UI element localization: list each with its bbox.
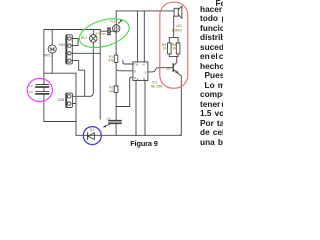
svg-text:4: 4	[143, 63, 145, 67]
svg-text:8: 8	[136, 63, 138, 67]
svg-text:8 Ohm: 8 Ohm	[172, 28, 182, 32]
svg-text:SOl-lam: SOl-lam	[95, 31, 106, 35]
svg-text:CN2: CN2	[58, 98, 65, 102]
svg-text:D1: D1	[90, 128, 94, 132]
svg-text:CN1: CN1	[59, 43, 66, 47]
svg-text:C1: C1	[106, 117, 110, 121]
svg-text:1K: 1K	[172, 47, 177, 51]
svg-text:M: M	[50, 47, 56, 53]
svg-text:1K: 1K	[163, 47, 168, 51]
svg-text:PL1: PL1	[110, 19, 116, 23]
svg-text:Q1: Q1	[166, 66, 171, 70]
svg-text:5: 5	[143, 77, 145, 81]
svg-text:RL1: RL1	[81, 36, 87, 40]
svg-text:47k: 47k	[109, 58, 115, 62]
svg-text:NE-555: NE-555	[151, 84, 163, 88]
svg-text:MT1: MT1	[44, 54, 51, 58]
svg-text:3: 3	[145, 71, 147, 75]
svg-text:1: 1	[137, 77, 139, 81]
svg-text:C3: C3	[29, 90, 33, 94]
svg-text:C2: C2	[29, 84, 33, 88]
svg-text:47k: 47k	[109, 89, 115, 93]
svg-text:6: 6	[134, 70, 136, 74]
